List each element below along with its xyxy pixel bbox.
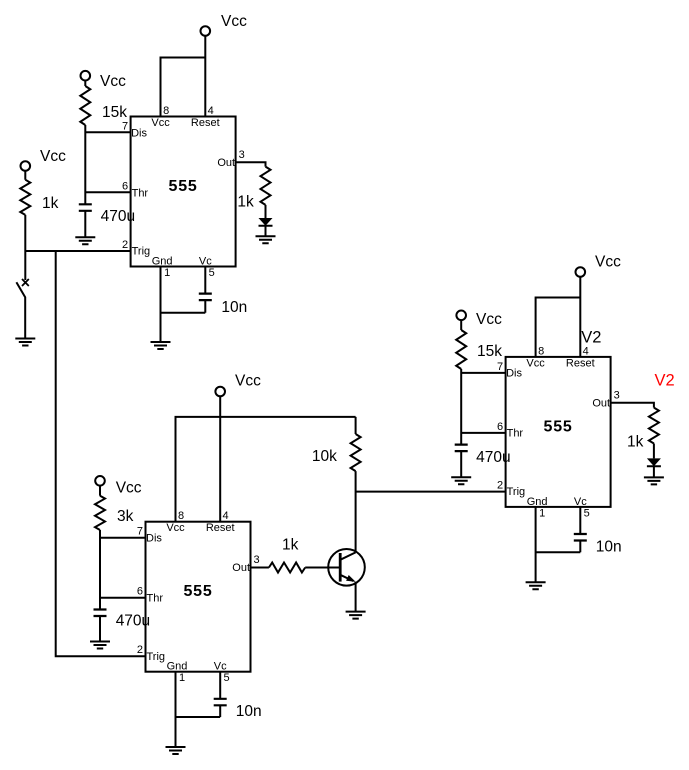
svg-text:Vcc: Vcc [595,254,621,271]
svg-text:10n: 10n [596,539,622,556]
svg-text:470u: 470u [101,208,135,225]
svg-text:3k: 3k [117,508,134,525]
svg-text:10n: 10n [236,703,262,720]
svg-text:Vcc: Vcc [100,73,126,90]
svg-text:470u: 470u [476,449,510,466]
svg-text:1k: 1k [42,195,59,212]
svg-text:470u: 470u [116,613,150,630]
svg-text:V2: V2 [581,328,601,346]
svg-text:1k: 1k [627,433,644,450]
svg-text:Vcc: Vcc [221,13,247,30]
svg-text:Vcc: Vcc [116,479,142,496]
svg-text:10n: 10n [221,299,247,316]
svg-text:15k: 15k [477,343,502,360]
svg-text:1k: 1k [282,537,299,554]
svg-text:15k: 15k [102,104,127,121]
svg-text:V2: V2 [655,371,675,389]
svg-text:Vcc: Vcc [40,148,66,165]
svg-text:10k: 10k [312,448,337,465]
svg-text:Vcc: Vcc [235,372,261,389]
svg-text:1k: 1k [237,194,254,211]
svg-text:Vcc: Vcc [476,311,502,328]
